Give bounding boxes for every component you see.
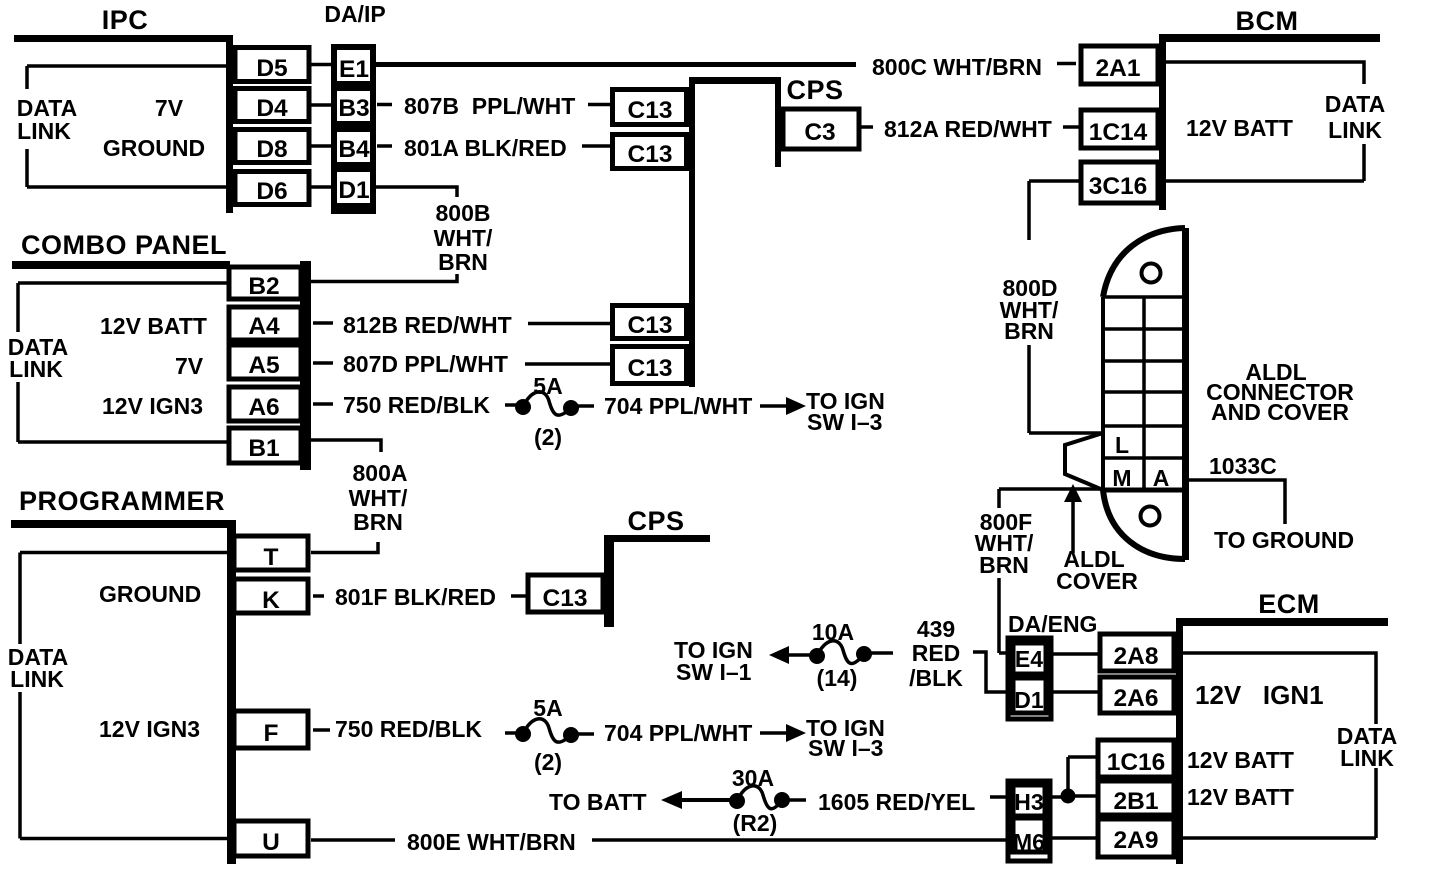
svg-text:A6: A6 [248,394,279,421]
svg-text:AND COVER: AND COVER [1211,399,1349,425]
svg-text:E4: E4 [1015,646,1043,672]
svg-text:750 RED/BLK: 750 RED/BLK [343,392,490,418]
svg-text:GROUND: GROUND [99,581,201,607]
svg-text:LINK: LINK [1340,745,1394,771]
svg-text:A5: A5 [248,352,279,379]
svg-text:704 PPL/WHT: 704 PPL/WHT [604,393,752,419]
svg-text:CPS: CPS [786,75,843,105]
svg-text:800B: 800B [436,200,491,226]
svg-text:C13: C13 [628,97,673,124]
svg-text:M6: M6 [1013,829,1045,855]
svg-text:D1: D1 [1014,687,1044,713]
svg-text:1C16: 1C16 [1107,749,1166,776]
svg-text:GROUND: GROUND [103,135,205,161]
svg-text:A: A [1153,465,1170,491]
svg-text:A4: A4 [248,313,280,340]
svg-text:12V BATT: 12V BATT [1186,115,1293,141]
svg-text:/BLK: /BLK [909,665,963,691]
svg-text:12V BATT: 12V BATT [100,313,207,339]
svg-text:L: L [1115,432,1129,458]
svg-text:800A: 800A [353,460,408,486]
svg-text:PROGRAMMER: PROGRAMMER [19,486,225,516]
svg-text:2A8: 2A8 [1114,643,1159,670]
svg-text:704 PPL/WHT: 704 PPL/WHT [604,720,752,746]
svg-text:(2): (2) [534,424,562,450]
svg-text:439: 439 [917,616,955,642]
svg-text:3C16: 3C16 [1089,173,1148,200]
svg-text:CPS: CPS [627,506,684,536]
svg-text:807D PPL/WHT: 807D PPL/WHT [343,351,508,377]
svg-text:C13: C13 [628,141,673,168]
svg-text:800E WHT/BRN: 800E WHT/BRN [407,829,576,855]
svg-text:RED: RED [912,640,961,666]
svg-text:801F BLK/RED: 801F BLK/RED [335,584,496,610]
svg-text:12V BATT: 12V BATT [1187,784,1294,810]
svg-text:C3: C3 [804,119,835,146]
svg-text:12V IGN3: 12V IGN3 [102,393,203,419]
svg-text:812A RED/WHT: 812A RED/WHT [884,116,1052,142]
svg-text:C13: C13 [628,312,673,339]
svg-text:DA/IP: DA/IP [324,1,385,27]
svg-text:COMBO PANEL: COMBO PANEL [21,230,227,260]
svg-text:BRN: BRN [353,509,403,535]
svg-text:LINK: LINK [1328,117,1382,143]
svg-text:BCM: BCM [1236,6,1299,36]
svg-text:2A6: 2A6 [1114,685,1159,712]
svg-text:T: T [264,544,279,571]
svg-text:K: K [262,587,280,614]
svg-text:M: M [1112,465,1131,491]
svg-text:B1: B1 [248,435,279,462]
svg-text:ECM: ECM [1258,589,1320,619]
svg-text:1C14: 1C14 [1089,119,1148,146]
svg-text:E1: E1 [339,56,369,83]
svg-text:LINK: LINK [10,666,64,692]
svg-text:C13: C13 [628,355,673,382]
svg-text:12V IGN3: 12V IGN3 [99,716,200,742]
svg-text:WHT/: WHT/ [349,485,408,511]
svg-text:WHT/: WHT/ [434,225,493,251]
svg-text:C13: C13 [543,585,588,612]
svg-text:1605 RED/YEL: 1605 RED/YEL [818,789,975,815]
svg-text:BRN: BRN [438,249,488,275]
svg-text:12V IGN1: 12V IGN1 [1195,680,1324,710]
svg-text:B4: B4 [338,136,370,163]
svg-text:B3: B3 [338,95,369,122]
svg-text:U: U [262,829,280,856]
svg-text:D4: D4 [256,95,288,122]
svg-text:IPC: IPC [102,5,149,35]
svg-text:SW I–3: SW I–3 [807,409,882,435]
svg-text:LINK: LINK [9,356,63,382]
svg-text:BRN: BRN [1004,318,1054,344]
svg-text:D6: D6 [256,178,287,205]
svg-text:(14): (14) [817,665,858,691]
svg-text:D5: D5 [256,55,287,82]
svg-text:2B1: 2B1 [1114,788,1159,815]
svg-text:30A: 30A [732,765,774,791]
svg-text:7V: 7V [175,353,204,379]
svg-text:DA/ENG: DA/ENG [1008,611,1097,637]
svg-text:2A1: 2A1 [1096,55,1141,82]
svg-text:5A: 5A [533,373,562,399]
svg-text:7V: 7V [155,95,184,121]
svg-text:807B PPL/WHT: 807B PPL/WHT [404,93,575,119]
svg-text:TO BATT: TO BATT [549,789,647,815]
svg-text:TO GROUND: TO GROUND [1214,527,1354,553]
svg-text:D8: D8 [256,136,287,163]
svg-text:5A: 5A [533,695,562,721]
svg-text:801A BLK/RED: 801A BLK/RED [404,135,567,161]
svg-text:DATA: DATA [1325,91,1385,117]
svg-text:(R2): (R2) [733,810,778,836]
svg-text:B2: B2 [248,273,279,300]
svg-text:1033C: 1033C [1209,453,1277,479]
svg-text:2A9: 2A9 [1114,827,1159,854]
svg-text:SW I–1: SW I–1 [676,659,752,685]
svg-text:12V BATT: 12V BATT [1187,747,1294,773]
svg-text:SW I–3: SW I–3 [808,735,883,761]
svg-text:BRN: BRN [979,552,1029,578]
svg-text:812B RED/WHT: 812B RED/WHT [343,312,512,338]
svg-text:D1: D1 [338,177,369,204]
svg-text:F: F [264,720,279,747]
svg-text:10A: 10A [812,619,854,645]
svg-text:LINK: LINK [17,118,71,144]
svg-text:(2): (2) [534,749,562,775]
svg-text:COVER: COVER [1056,568,1138,594]
svg-text:750 RED/BLK: 750 RED/BLK [335,716,482,742]
svg-text:H3: H3 [1014,789,1043,815]
svg-text:800C WHT/BRN: 800C WHT/BRN [872,54,1042,80]
